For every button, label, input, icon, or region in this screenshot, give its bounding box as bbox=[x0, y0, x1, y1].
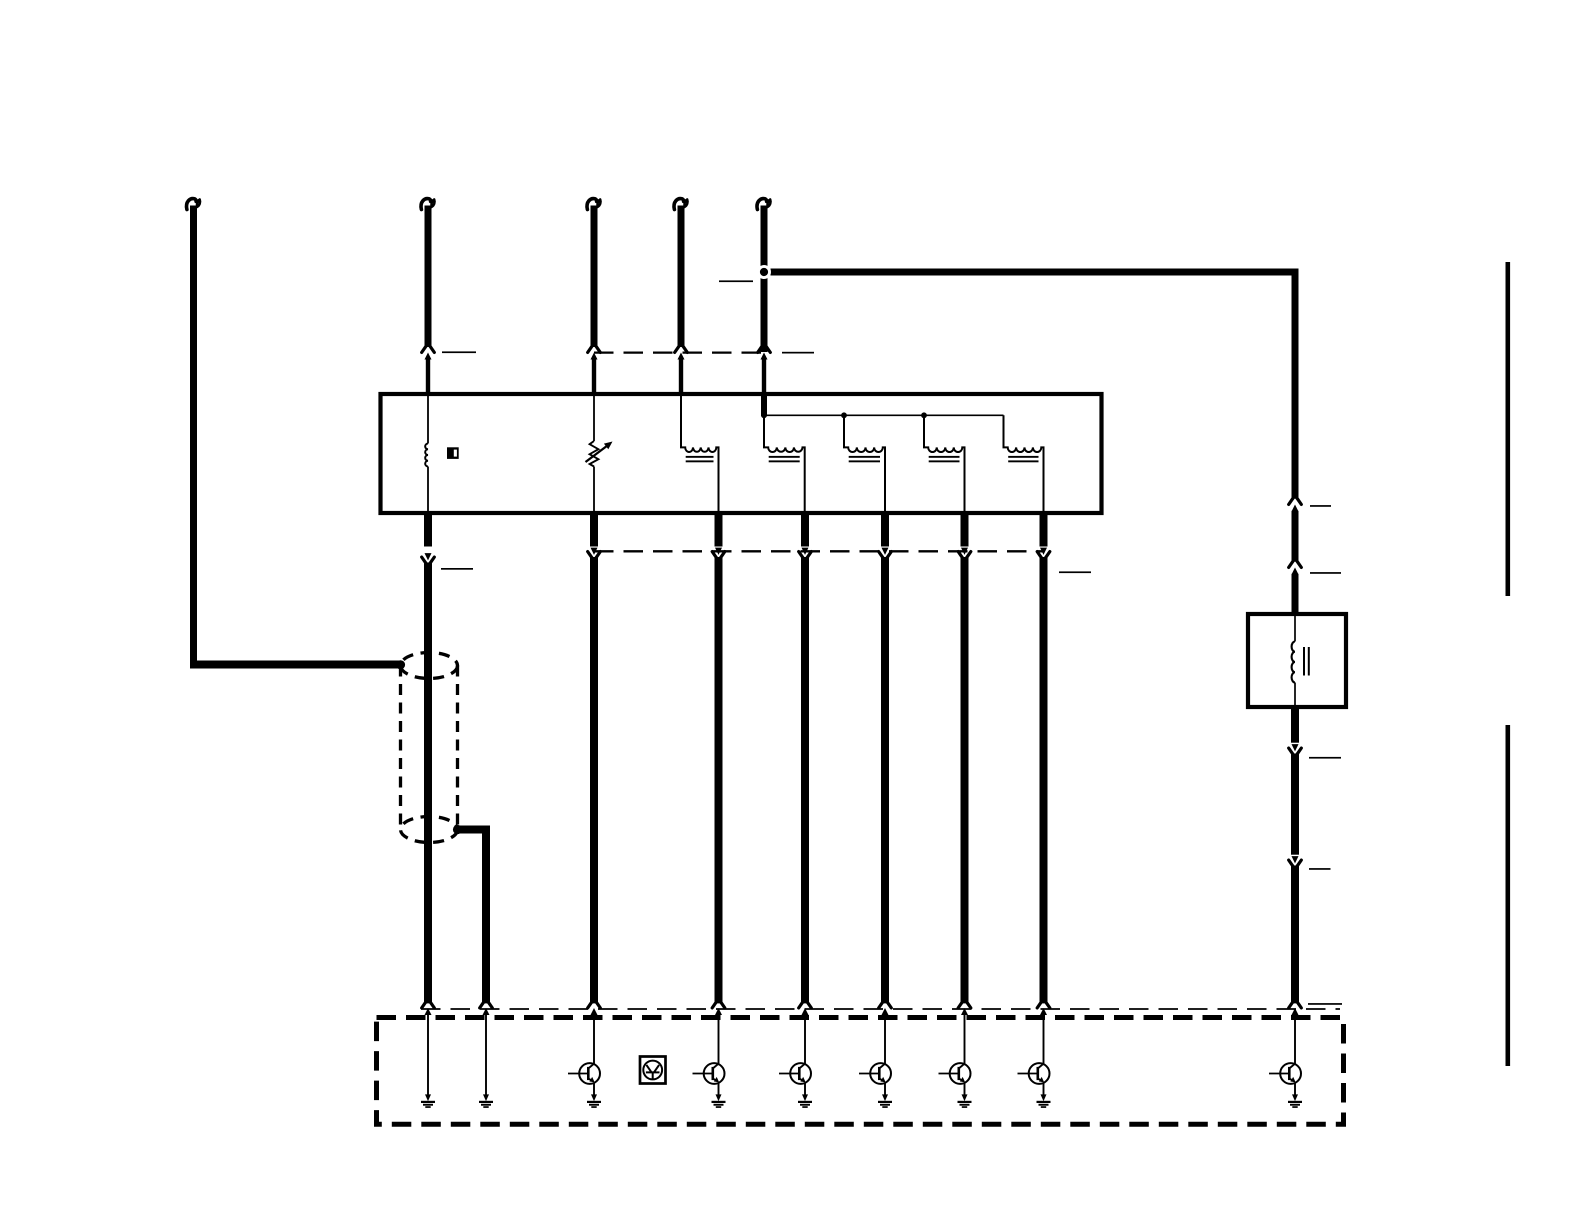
in-line connector on output 7 bbox=[1040, 548, 1047, 555]
right margin bar (upper) bbox=[1506, 262, 1511, 596]
primary coil L1 lead (top) bbox=[427, 396, 429, 444]
label dash (junction wire) bbox=[719, 280, 753, 282]
shield drain jog (horizontal) bbox=[458, 826, 491, 834]
wire output 4 long run bbox=[801, 557, 809, 1003]
ECU internal wire pin 1 bbox=[427, 1014, 429, 1096]
ground (Q1) bbox=[591, 1094, 597, 1101]
in-line connector R1 bbox=[1289, 498, 1302, 504]
shield bottom node bbox=[453, 825, 462, 834]
shield cylinder side (left) bbox=[399, 666, 402, 830]
bus node A bbox=[761, 412, 767, 418]
transistor Q2 bbox=[718, 1014, 720, 1064]
ECU connector pin 6 bbox=[879, 1002, 892, 1008]
wire W2 end arrow (top) bbox=[421, 199, 431, 210]
primary coil L1 winding bbox=[425, 444, 428, 467]
transformer winding T5 bbox=[1004, 415, 1044, 512]
variable resistor lead (top) bbox=[593, 396, 595, 441]
ECU connector pin 2 bbox=[480, 1002, 493, 1008]
ground (Q6) bbox=[1041, 1094, 1047, 1101]
suppressor lead (top) bbox=[1294, 616, 1296, 642]
wire output 2 long run bbox=[590, 557, 598, 1003]
output stub 7 below unit bbox=[1040, 511, 1048, 547]
in-line connector on output 4 bbox=[802, 548, 809, 555]
wire W4 (top vertical) bbox=[678, 206, 685, 348]
transformer winding T3 bbox=[844, 415, 885, 512]
ignition coil unit box U1 bbox=[381, 394, 1102, 513]
condenser icon (small block) bbox=[447, 447, 459, 459]
ground (Q7) bbox=[1292, 1094, 1298, 1101]
output stub 4 below unit bbox=[801, 511, 809, 547]
label dash (connector R4) bbox=[1309, 868, 1331, 870]
junction node (solder dot) bbox=[760, 268, 768, 276]
label dash (output 7 connector) bbox=[1059, 571, 1091, 573]
jumper wire to ignitor (horizontal) bbox=[771, 269, 1299, 276]
in-line connector on output 3 bbox=[715, 548, 722, 555]
shield cylinder side (right) bbox=[456, 666, 459, 830]
wire W1 end arrow (top) bbox=[187, 199, 197, 210]
label dash (connector R2) bbox=[1310, 572, 1341, 574]
ECU connector pin 7 bbox=[958, 1002, 971, 1008]
ground (pin 2) bbox=[483, 1094, 489, 1101]
wire output 1 long run bbox=[424, 563, 432, 1004]
wire W2 (top vertical) bbox=[425, 206, 432, 348]
transistor Q1 bbox=[593, 1014, 595, 1064]
shield top node bbox=[396, 660, 405, 669]
output stub 2 below unit bbox=[590, 511, 598, 547]
noise suppressor box U2 bbox=[1248, 614, 1346, 707]
variable resistor arrow bbox=[586, 446, 608, 463]
variable resistor zigzag bbox=[590, 441, 599, 467]
ignitor feed wire (lower) bbox=[1292, 574, 1299, 615]
primary coil L1 lead (bottom) bbox=[427, 467, 429, 513]
output stub 5 below unit bbox=[881, 511, 889, 547]
ECU connector pin 3 bbox=[588, 1002, 601, 1008]
wire W4 end arrow (top) bbox=[674, 199, 684, 210]
ECU box (dashed) bbox=[377, 1018, 1344, 1125]
wire W5 to junction segment bbox=[761, 266, 768, 352]
internal bus wire bbox=[764, 414, 1004, 416]
transistor Q7 bbox=[1294, 1014, 1296, 1064]
in-line connector on output 2 bbox=[591, 548, 598, 555]
W5 feed into box (thick) bbox=[761, 396, 767, 416]
right margin bar (lower) bbox=[1506, 725, 1511, 1066]
pigtail of W2 into coil unit bbox=[426, 359, 430, 395]
suppressor lead (bottom) bbox=[1294, 683, 1296, 706]
shield drain wire (vertical) bbox=[482, 826, 490, 1004]
ground (pin 1) bbox=[425, 1094, 431, 1101]
label dash (connector R1) bbox=[1310, 505, 1331, 507]
label dash (W2 connector) bbox=[442, 351, 476, 353]
ECU connector pin 4 bbox=[712, 1002, 725, 1008]
ignitor wire to ECU bbox=[1291, 866, 1299, 1004]
output stub 1 below unit bbox=[424, 511, 432, 547]
suppressor core bar 1 bbox=[1303, 647, 1305, 676]
in-line connector R3 bbox=[1292, 744, 1299, 751]
bus node B bbox=[841, 412, 847, 418]
label dash (ECU pin 9) bbox=[1308, 1003, 1342, 1005]
label dash (output 1 connector) bbox=[441, 568, 473, 570]
in-line connector on W4 bbox=[675, 346, 688, 352]
ECU internal wire pin 2 bbox=[485, 1014, 487, 1096]
wire output 5 long run bbox=[881, 557, 889, 1003]
wire output 3 long run bbox=[715, 557, 723, 1003]
wire W1 (battery feed, left vertical) bbox=[190, 206, 197, 665]
ECU connector pin 8 bbox=[1037, 1002, 1050, 1008]
suppressor coil L2 bbox=[1292, 642, 1295, 683]
shield cylinder bottom ellipse bbox=[401, 817, 458, 843]
ECU connector pin 1 bbox=[422, 1002, 435, 1008]
ground (Q5) bbox=[962, 1094, 968, 1101]
in-line connector on W3 bbox=[588, 346, 601, 352]
ground (Q3) bbox=[802, 1094, 808, 1101]
pigtail of W4 into coil unit bbox=[679, 359, 683, 395]
transformer winding T4 bbox=[924, 415, 965, 512]
variable resistor lead (bottom) bbox=[593, 467, 595, 513]
connector dashed line (middle row) bbox=[594, 550, 1044, 552]
transistor Q4 bbox=[884, 1014, 886, 1064]
in-line connector on output 1 bbox=[425, 553, 432, 560]
connector dashed line (top row) bbox=[594, 351, 764, 353]
output stub 3 below unit bbox=[715, 511, 723, 547]
in-line connector on output 6 bbox=[961, 548, 968, 555]
pigtail of W3 into coil unit bbox=[592, 359, 596, 395]
junction halo bbox=[757, 265, 771, 279]
suppressor core bar 2 bbox=[1308, 647, 1310, 676]
ECU connector pin 9 bbox=[1289, 1002, 1302, 1008]
ignitor wire segment bbox=[1291, 754, 1299, 855]
output stub 6 below unit bbox=[961, 511, 969, 547]
in-line connector on output 5 bbox=[882, 548, 889, 555]
in-line connector R4 bbox=[1292, 856, 1299, 863]
ignitor feed wire (upper) bbox=[1292, 269, 1299, 499]
bus node C bbox=[921, 412, 927, 418]
label dash (connector R3) bbox=[1309, 757, 1341, 759]
label dash (W5 connector) bbox=[782, 352, 814, 354]
wire output 7 long run bbox=[1040, 557, 1048, 1003]
ignitor feed wire (middle) bbox=[1292, 511, 1299, 562]
ECU connector dashed line bbox=[421, 1008, 1340, 1010]
ground (Q4) bbox=[882, 1094, 888, 1101]
shield cylinder top ellipse bbox=[401, 653, 458, 679]
transistor Q5 bbox=[964, 1014, 966, 1064]
pigtail of W5 into coil unit bbox=[762, 359, 766, 395]
wire W5 (top vertical) bbox=[761, 206, 768, 348]
ECU connector pin 5 bbox=[799, 1002, 812, 1008]
wire W1 horizontal run to shield bbox=[190, 661, 402, 669]
wire W5 end arrow (top) bbox=[757, 199, 767, 210]
transistor Q3 bbox=[804, 1014, 806, 1064]
wire W3 (top vertical) bbox=[591, 206, 598, 348]
in-line connector on W2 bbox=[422, 346, 435, 352]
in-line connector on W5 bbox=[758, 346, 771, 352]
wire output 6 long run bbox=[961, 557, 969, 1003]
in-line connector R2 bbox=[1289, 561, 1302, 567]
transformer winding T2 bbox=[764, 415, 805, 512]
transformer winding T1 bbox=[681, 396, 719, 512]
ignitor output stub bbox=[1291, 707, 1299, 743]
driver module icon bbox=[640, 1057, 666, 1084]
transistor Q6 bbox=[1043, 1014, 1045, 1064]
ground (Q2) bbox=[716, 1094, 722, 1101]
wire W3 end arrow (top) bbox=[587, 199, 597, 210]
